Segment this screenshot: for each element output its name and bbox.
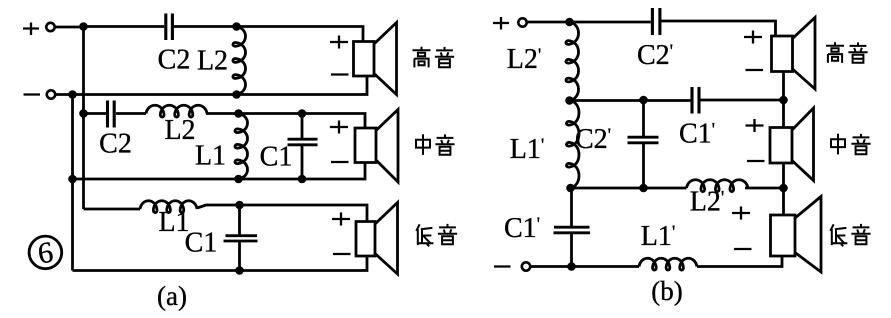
- label treble speaker (a) 高音: [413, 47, 455, 68]
- inductor L2 (a row1, shunt): [233, 27, 246, 95]
- wire midrange minus down to node F: [782, 163, 785, 188]
- node A junction: [565, 18, 574, 27]
- label L2 (a row1): [197, 46, 228, 77]
- figure number 6 circled: [29, 236, 62, 271]
- plus terminal sign (a): [23, 23, 39, 36]
- wire node F down to woofer plus: [782, 188, 785, 215]
- label woofer speaker (a) 低音: [416, 224, 457, 246]
- wire b bottom left segment: [531, 265, 640, 268]
- inductor L1' (b, shunt node B to D): [566, 101, 579, 189]
- wire row1 bottom to tweeter: [73, 76, 368, 95]
- wire row2 input from plus bus: [79, 109, 88, 118]
- label L2' (b row2): [690, 187, 725, 218]
- plus input terminal (a): [46, 23, 54, 31]
- speaker midrange (b): [770, 108, 814, 181]
- speaker tweeter (b): [772, 18, 816, 90]
- wire row2 after cap: [116, 112, 146, 115]
- wire row1 top left segment: [84, 25, 165, 28]
- wire plus bus vertical: [82, 27, 85, 210]
- label C2' (b mid): [575, 124, 611, 155]
- wire b row1 top right segment to tweeter: [662, 21, 776, 36]
- wire b row2 bottom left segment: [571, 187, 687, 190]
- node F junction: [779, 184, 788, 193]
- inductor L2' (b row2, series): [687, 180, 749, 192]
- node B2 junction: [779, 96, 788, 105]
- svg-text:C1: C1: [185, 228, 218, 259]
- label treble speaker (b) 高音: [826, 42, 868, 63]
- svg-text:L1': L1': [641, 221, 676, 252]
- node C junction: [639, 96, 648, 105]
- wire b row1 top left segment: [570, 21, 651, 24]
- speaker woofer (a): [356, 203, 398, 275]
- plus sign woofer (b): [732, 207, 750, 220]
- svg-text:(b): (b): [651, 276, 682, 306]
- speaker woofer (b): [771, 197, 822, 273]
- wire tweeter minus down to node B2: [782, 72, 785, 101]
- wire row2 top mid segment: [206, 114, 365, 129]
- label C2 (a row1): [158, 45, 191, 76]
- wire row3 bottom: [73, 256, 368, 271]
- plus sign midrange (b): [746, 119, 764, 132]
- wire minus bus vertical: [71, 95, 74, 271]
- wire b bottom right segment to woofer: [697, 256, 782, 267]
- label C1 (a row2): [260, 142, 293, 173]
- inductor L1' (b bottom, series): [639, 258, 697, 270]
- inductor L1 (a row3, series): [140, 201, 197, 213]
- svg-text:L1: L1: [195, 141, 226, 172]
- label L1' (b mid left): [510, 134, 545, 165]
- label L1 (a row3): [158, 207, 189, 238]
- node row2 cap bottom: [298, 175, 307, 184]
- node row2 coil bottom: [234, 175, 243, 184]
- wire b row2 top left segment: [570, 99, 691, 102]
- label woofer speaker (b) 低音: [830, 224, 870, 246]
- minus input terminal (b): [522, 262, 530, 270]
- label L1 (a row2): [195, 141, 226, 172]
- node row2 coil top: [234, 109, 243, 118]
- wire node B2 down to midrange plus: [782, 100, 785, 128]
- capacitor C2 (a row2): [108, 101, 115, 128]
- node P junction: [79, 22, 88, 31]
- plus terminal sign (b): [493, 17, 509, 30]
- wire row3 top right segment: [197, 205, 367, 222]
- label L1' (b bottom): [641, 221, 676, 252]
- minus terminal sign (a): [24, 93, 41, 95]
- label C2 (a row2): [99, 129, 132, 160]
- node row1 coil bottom: [232, 90, 241, 99]
- node B junction: [565, 96, 574, 105]
- caption (b): [651, 276, 682, 306]
- speaker midrange (a): [355, 110, 398, 183]
- node row1 coil top: [232, 22, 241, 31]
- label C2' (b row1): [637, 40, 673, 71]
- svg-text:C2: C2: [158, 45, 191, 76]
- minus input terminal (a): [47, 90, 55, 98]
- wire from minus terminal to node M: [56, 93, 73, 96]
- node G junction: [567, 262, 576, 271]
- svg-text:L2': L2': [690, 187, 725, 218]
- plus sign tweeter (b): [744, 31, 762, 44]
- minus terminal sign (b): [494, 265, 511, 267]
- capacitor C1' (b row2, series): [692, 87, 699, 114]
- minus sign woofer (b): [734, 248, 752, 250]
- node row2 bottom bus junction: [68, 175, 77, 184]
- minus sign tweeter (a): [331, 73, 349, 75]
- node E junction: [639, 184, 648, 193]
- wire b row2 bottom right segment: [745, 187, 784, 190]
- svg-text:C1': C1': [679, 119, 715, 150]
- node row2 cap top: [298, 109, 307, 118]
- svg-text:C2': C2': [637, 40, 673, 71]
- svg-text:C1': C1': [504, 213, 540, 244]
- wire row2 top left segment: [84, 112, 107, 115]
- node M junction: [68, 90, 77, 99]
- wire from plus terminal to node A: [527, 21, 570, 24]
- svg-text:L1': L1': [510, 134, 545, 165]
- svg-text:C1: C1: [260, 142, 293, 173]
- wire row2 bottom: [73, 163, 366, 180]
- wire row1 top mid segment: [174, 25, 237, 28]
- minus sign woofer (a): [333, 253, 351, 255]
- minus sign midrange (b): [747, 160, 765, 162]
- label C1 (a row3): [185, 228, 218, 259]
- inductor L2 (a row2, series): [146, 105, 207, 117]
- minus sign tweeter (b): [746, 69, 764, 71]
- svg-text:L2: L2: [164, 115, 195, 146]
- inductor L2' (b, shunt from node A): [566, 22, 579, 101]
- svg-text:C2: C2: [99, 129, 132, 160]
- capacitor C2' (b, shunt at node C): [628, 100, 659, 188]
- plus sign midrange (a): [330, 121, 348, 134]
- node row3 cap top: [235, 201, 244, 210]
- minus sign midrange (a): [331, 161, 349, 163]
- label C1' (b bottom left): [504, 213, 540, 244]
- wire row1 top right segment to tweeter: [237, 27, 364, 42]
- capacitor C2 (a row1): [166, 14, 173, 41]
- label L2 (a row2): [164, 115, 195, 146]
- capacitor C1' (b, shunt node D to G): [554, 188, 591, 267]
- capacitor C1 (a row2, shunt): [288, 114, 318, 180]
- label C1' (b mid): [679, 119, 715, 150]
- wire from plus terminal to node P: [55, 26, 84, 29]
- plus sign tweeter (a): [330, 36, 348, 49]
- wire b row2 top right segment: [701, 99, 784, 102]
- wire row3 top left segment: [84, 208, 141, 211]
- node D junction: [566, 184, 575, 193]
- svg-text:C2': C2': [575, 124, 611, 155]
- plus sign woofer (a): [332, 213, 350, 226]
- svg-text:L2: L2: [197, 46, 228, 77]
- plus input terminal (b): [518, 18, 526, 26]
- capacitor C1 (a row3, shunt): [224, 205, 258, 271]
- label midrange speaker (a) 中音: [416, 134, 455, 155]
- inductor L1 (a row2, shunt): [235, 114, 248, 180]
- node row3 cap bottom: [235, 266, 244, 275]
- label midrange speaker (b) 中音: [831, 134, 871, 155]
- svg-text:(a): (a): [157, 281, 187, 311]
- capacitor C2' (b row1, series): [652, 8, 660, 35]
- svg-text:L2': L2': [507, 44, 542, 75]
- caption (a): [157, 281, 187, 311]
- speaker tweeter (a): [354, 23, 397, 95]
- label L2' (b row1): [507, 44, 542, 75]
